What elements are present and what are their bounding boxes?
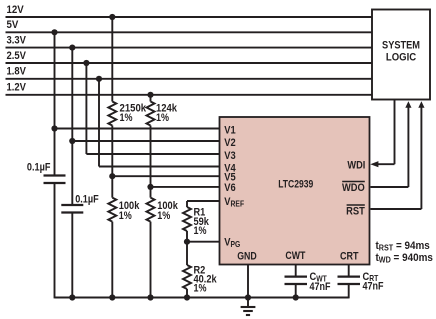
svg-text:1.8V: 1.8V [7,66,27,78]
svg-text:2.5V: 2.5V [7,51,27,63]
svg-text:0.1µF: 0.1µF [75,194,98,206]
svg-text:GND: GND [237,251,257,263]
svg-text:VPG: VPG [224,237,240,249]
svg-text:1%: 1% [156,112,169,124]
svg-text:tWD = 940ms: tWD = 940ms [376,253,434,265]
svg-text:tRST = 94ms: tRST = 94ms [376,241,430,253]
svg-text:LTC2939: LTC2939 [278,178,314,190]
svg-text:V2: V2 [224,137,236,149]
svg-text:V3: V3 [224,150,236,162]
svg-text:WDO: WDO [342,182,365,194]
svg-text:1%: 1% [157,210,170,222]
svg-text:V6: V6 [224,182,236,194]
svg-text:1%: 1% [194,225,207,237]
svg-text:47nF: 47nF [310,281,331,293]
svg-text:47nF: 47nF [363,281,384,293]
svg-text:5V: 5V [7,20,19,32]
svg-text:LOGIC: LOGIC [386,52,417,64]
svg-text:CRT: CRT [340,251,359,263]
svg-text:VREF: VREF [224,196,244,208]
svg-text:3.3V: 3.3V [7,35,27,47]
svg-text:CWT: CWT [285,250,305,262]
svg-text:0.1µF: 0.1µF [27,162,50,174]
svg-text:1%: 1% [194,283,207,295]
svg-text:1%: 1% [119,210,132,222]
svg-text:1%: 1% [120,112,133,124]
svg-text:12V: 12V [7,4,24,16]
svg-text:RST: RST [346,206,365,218]
svg-text:V1: V1 [224,125,236,137]
svg-text:SYSTEM: SYSTEM [382,40,420,52]
svg-text:WDI: WDI [347,160,365,172]
svg-text:1.2V: 1.2V [7,82,27,94]
